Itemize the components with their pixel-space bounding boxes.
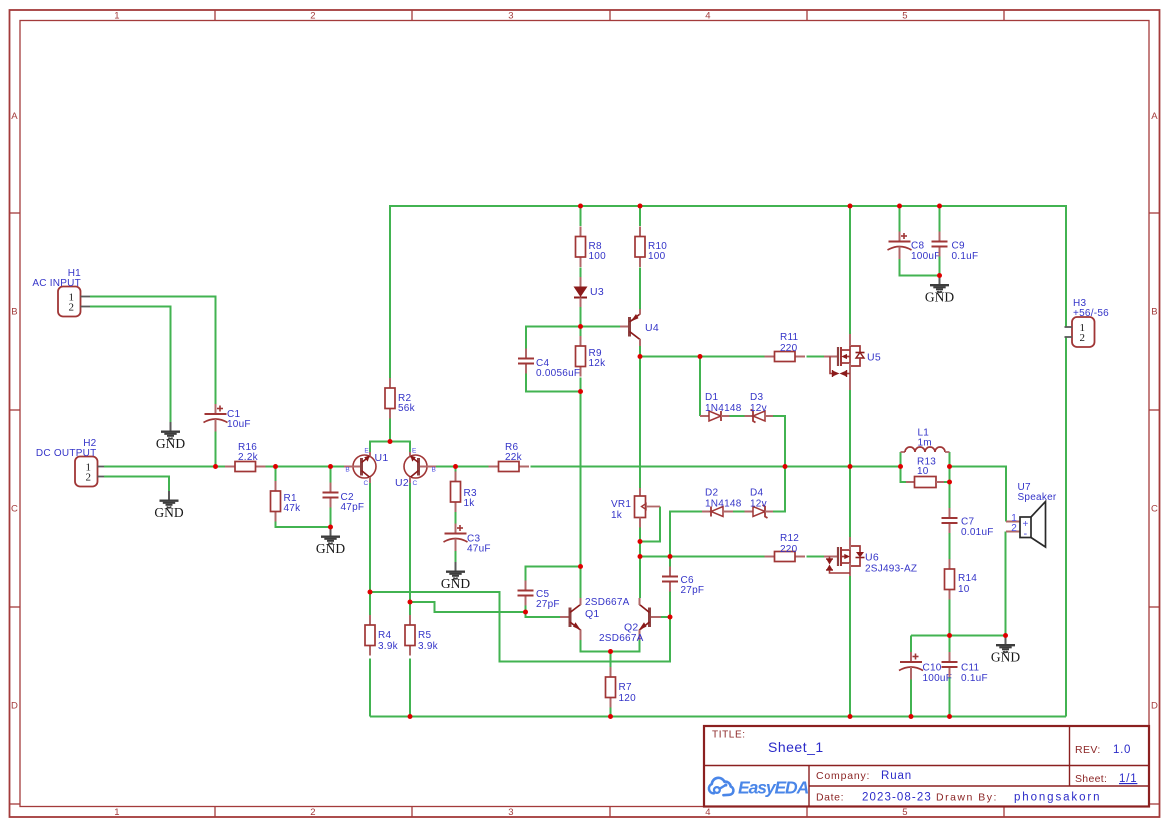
label 10 of R13 — [917, 466, 929, 477]
wire output rail to speaker pin1 — [950, 467, 1007, 522]
ground below C2 — [316, 527, 345, 556]
svg-text:D1: D1 — [705, 392, 718, 403]
svg-text:C: C — [1151, 504, 1158, 515]
wire C5 bottom to node — [525, 606, 527, 613]
wire R8 top to rail — [580, 206, 582, 226]
label R6 — [505, 442, 518, 453]
wire R7 bottom to rail — [610, 707, 612, 717]
wire C10 top node line — [911, 636, 1006, 653]
wire output rail to U6 drain — [849, 467, 851, 538]
label AC INPUT — [32, 278, 81, 289]
pin label C of U1 — [364, 480, 369, 487]
svg-text:C10: C10 — [923, 663, 942, 674]
capacitor C6 — [662, 567, 678, 592]
svg-text:2: 2 — [69, 301, 75, 313]
diode D2 — [702, 507, 733, 517]
svg-text:R5: R5 — [418, 630, 431, 641]
label 100uF of C10 — [923, 673, 953, 684]
transistor U1 — [344, 452, 376, 483]
label 0.0056uF — [536, 368, 580, 379]
label 1k — [464, 498, 476, 509]
label +56/-56 — [1073, 308, 1109, 319]
svg-text:D4: D4 — [750, 488, 763, 499]
svg-text:1k: 1k — [611, 510, 623, 521]
wire node to R7 top — [610, 652, 612, 668]
svg-text:12k: 12k — [589, 358, 607, 369]
wire C11 top to node — [949, 636, 951, 653]
wire R5 bottom to rail — [409, 659, 411, 717]
svg-text:2: 2 — [1011, 523, 1017, 534]
pin label B of U1 — [345, 467, 350, 474]
label C2 — [341, 492, 354, 503]
wire top rail to C8 top — [899, 206, 901, 232]
svg-text:1m: 1m — [918, 438, 932, 449]
wire D1 to D3 — [730, 415, 745, 417]
svg-text:B: B — [11, 307, 18, 318]
svg-text:C: C — [413, 480, 418, 487]
wire C1 bottom to node — [215, 432, 217, 467]
capacitor C5 — [518, 581, 534, 606]
title block — [704, 726, 1149, 807]
label U5 — [867, 352, 881, 364]
label Speaker — [1018, 492, 1057, 503]
wire R4 bottom to rail — [369, 659, 371, 717]
frame row letters right — [1151, 111, 1158, 712]
label D1 — [705, 392, 718, 403]
pin label 1 of U7 — [1011, 513, 1017, 524]
svg-text:EasyEDA: EasyEDA — [738, 778, 809, 798]
wire U4 node to R11 — [640, 356, 765, 358]
svg-text:phongsakorn: phongsakorn — [1014, 792, 1101, 804]
label C11 — [961, 663, 980, 674]
label 2.2k — [238, 452, 259, 463]
label 47k — [284, 503, 302, 514]
svg-text:Date:: Date: — [816, 792, 844, 804]
svg-text:+56/-56: +56/-56 — [1073, 308, 1109, 319]
wire D4 to output rail — [773, 467, 785, 512]
transistor U4 — [620, 309, 640, 346]
svg-text:Speaker: Speaker — [1018, 492, 1057, 503]
wire bottom rail — [370, 716, 1066, 718]
resistor R1 — [271, 481, 281, 522]
label U7 — [1018, 482, 1031, 493]
svg-text:220: 220 — [780, 343, 798, 354]
svg-text:D3: D3 — [750, 392, 763, 403]
label 100 of R10 — [648, 251, 666, 262]
label C8 — [911, 241, 924, 252]
wire C3 bottom to ground — [455, 551, 457, 562]
svg-text:27pF: 27pF — [536, 599, 560, 610]
svg-text:R11: R11 — [780, 332, 799, 343]
svg-text:2SD667A: 2SD667A — [599, 633, 644, 644]
wire Q1 collector to R9 — [580, 392, 582, 599]
label 1.0 — [1113, 744, 1131, 756]
svg-text:0.1uF: 0.1uF — [961, 673, 988, 684]
label C7 — [961, 517, 974, 528]
svg-text:1: 1 — [114, 11, 120, 22]
wire R14 bottom to node — [949, 600, 951, 636]
label H1 — [68, 268, 81, 279]
svg-text:AC INPUT: AC INPUT — [32, 278, 81, 289]
label 56k — [398, 403, 416, 414]
svg-text:R12: R12 — [780, 533, 799, 544]
svg-text:C: C — [11, 504, 18, 515]
svg-text:2SJ493-AZ: 2SJ493-AZ — [865, 564, 917, 575]
resistor R11 — [765, 352, 806, 362]
svg-text:D: D — [1151, 701, 1158, 712]
svg-text:4: 4 — [705, 11, 711, 22]
connector H1 — [58, 287, 90, 317]
svg-text:220: 220 — [780, 544, 798, 555]
label 0.1uF of C9 — [952, 251, 979, 262]
capacitor C7 — [942, 508, 958, 533]
label 0.01uF — [961, 527, 994, 538]
label Date — [816, 792, 844, 804]
svg-text:U4: U4 — [645, 322, 659, 334]
label 120 of R7 — [619, 693, 637, 704]
label R11 — [780, 332, 799, 343]
svg-text:2: 2 — [86, 471, 92, 483]
wire C4 bottom to R9 bottom node — [526, 374, 581, 392]
label D3 — [750, 392, 763, 403]
wire C8 bottom to C9 bottom ground node — [900, 257, 940, 276]
diode D3 zener — [745, 410, 774, 423]
label 2SD667A of Q2 — [599, 633, 644, 644]
svg-text:0.0056uF: 0.0056uF — [536, 368, 580, 379]
wire node to R9 top — [580, 327, 582, 337]
capacitor C4 — [518, 349, 534, 374]
speaker U7 — [1006, 502, 1046, 548]
svg-text:2.2k: 2.2k — [238, 452, 259, 463]
ground near C1 — [156, 422, 185, 451]
resistor R13 — [906, 477, 944, 488]
wire node to R3 top — [455, 467, 457, 472]
ground below C3 — [441, 562, 470, 591]
svg-text:1/1: 1/1 — [1119, 773, 1137, 785]
svg-text:Q2: Q2 — [624, 622, 639, 634]
wire R9 bottom to node — [580, 378, 582, 392]
wire U2 collector down to R5 — [409, 483, 411, 615]
connector H2 — [75, 457, 104, 487]
label 47uF — [467, 544, 491, 555]
potentiometer VR1 — [635, 488, 661, 528]
transistor U2 — [404, 452, 436, 483]
svg-text:B: B — [345, 467, 350, 474]
svg-text:A: A — [11, 111, 18, 122]
wire U2 base to node — [436, 466, 456, 468]
label R4 — [378, 630, 391, 641]
resistor R12 — [765, 552, 806, 562]
label TITLE — [712, 730, 746, 741]
svg-text:2SD667A: 2SD667A — [585, 597, 630, 608]
svg-text:2023-08-23: 2023-08-23 — [862, 792, 932, 804]
svg-text:1N4148: 1N4148 — [705, 403, 742, 414]
svg-text:1k: 1k — [464, 498, 476, 509]
label Ruan — [881, 770, 912, 782]
wire R10 bottom to U4 emitter — [639, 268, 641, 310]
wire C2 bottom to ground node — [330, 508, 332, 528]
label 2SD667A of Q1 — [585, 597, 630, 608]
label VR1 — [611, 499, 631, 510]
wire U4 node down to VR1 — [639, 357, 641, 489]
diode D4 zener — [745, 505, 774, 518]
wire R11 to U5 gate — [807, 356, 825, 358]
label R3 — [464, 488, 477, 499]
pin label C of U2 — [413, 480, 418, 487]
label 10uF — [227, 419, 251, 430]
svg-text:GND: GND — [316, 541, 345, 556]
wire node to C6 bottom branch — [370, 592, 670, 662]
wire node to R6 — [456, 466, 489, 468]
capacitor C10 — [899, 652, 923, 680]
label C3 — [467, 534, 480, 545]
svg-text:10uF: 10uF — [227, 419, 251, 430]
svg-text:E: E — [412, 448, 417, 455]
resistor R8 — [576, 227, 586, 268]
wire node to C7 top — [949, 482, 951, 508]
svg-text:C7: C7 — [961, 517, 974, 528]
wire C7 bottom to R14 top — [949, 533, 951, 559]
svg-text:100: 100 — [648, 251, 666, 262]
svg-text:REV:: REV: — [1075, 744, 1101, 756]
mosfet U5 — [824, 334, 865, 390]
svg-text:47k: 47k — [284, 503, 302, 514]
wire C10 bottom to rail — [910, 680, 912, 717]
wire node to R1 top — [275, 467, 277, 482]
resistor R9 — [576, 336, 586, 377]
svg-text:U6: U6 — [865, 552, 879, 564]
svg-text:U3: U3 — [590, 286, 604, 298]
wire Q2 base node — [661, 616, 670, 618]
resistor R3 — [451, 472, 461, 513]
wire top rail to C9 top — [939, 206, 941, 232]
svg-text:12v: 12v — [750, 499, 767, 510]
label U4 — [645, 322, 659, 334]
pin label E of U2 — [412, 448, 417, 455]
svg-text:Ruan: Ruan — [881, 770, 912, 782]
svg-text:4: 4 — [705, 807, 711, 818]
svg-text:22k: 22k — [505, 452, 523, 463]
label 100 of R8 — [589, 251, 607, 262]
svg-text:DC OUTPUT: DC OUTPUT — [36, 448, 97, 459]
svg-text:27pF: 27pF — [681, 585, 705, 596]
label 100uF of C8 — [911, 251, 941, 262]
label 1/1 — [1119, 773, 1137, 785]
label R14 — [958, 573, 977, 584]
label C9 — [952, 241, 965, 252]
label C10 — [923, 663, 942, 674]
svg-text:GND: GND — [991, 650, 1020, 665]
wire L1 left leg — [900, 452, 902, 467]
svg-text:B: B — [1151, 307, 1158, 318]
label C6 — [681, 575, 694, 586]
wire C2 top to node — [330, 467, 332, 483]
wire DC output pin1 to R16 — [104, 466, 225, 468]
wire U6 source to bottom rail — [849, 576, 851, 717]
label 10 of R14 — [958, 584, 970, 595]
label R12 — [780, 533, 799, 544]
wire H3 pin2 down right side — [1065, 337, 1067, 717]
resistor R16 — [225, 462, 266, 472]
ground near speaker — [991, 636, 1020, 665]
label REV — [1075, 744, 1101, 756]
label 1k of VR1 — [611, 510, 623, 521]
label phongsakorn — [1014, 792, 1101, 804]
svg-text:12v: 12v — [750, 403, 767, 414]
label R9 — [589, 348, 602, 359]
svg-text:47pF: 47pF — [341, 502, 365, 513]
svg-text:10: 10 — [917, 466, 929, 477]
wire L1 right leg — [949, 452, 951, 467]
label Q1 — [585, 608, 600, 620]
svg-text:U5: U5 — [867, 352, 881, 364]
label 12v of D3 — [750, 403, 767, 414]
svg-text:C9: C9 — [952, 241, 965, 252]
svg-text:-: - — [1024, 528, 1028, 540]
label 2SJ493-AZ — [865, 564, 917, 575]
wire R13 right leg — [944, 467, 950, 483]
label R1 — [284, 493, 297, 504]
label 1N4148 of D2 — [705, 499, 742, 510]
label R8 — [589, 241, 602, 252]
svg-text:5: 5 — [902, 807, 908, 818]
svg-text:D: D — [11, 701, 18, 712]
wire R13 left leg — [901, 467, 907, 483]
diode U3 — [574, 277, 588, 307]
svg-text:0.01uF: 0.01uF — [961, 527, 994, 538]
svg-text:Sheet_1: Sheet_1 — [768, 739, 824, 755]
wire U1 U2 emitters to R2 bottom — [370, 418, 410, 452]
label C4 — [536, 358, 549, 369]
transistor Q2 — [639, 598, 661, 640]
wire U2 collector node to Q1 base — [410, 602, 560, 617]
label R13 — [917, 457, 936, 468]
frame column numbers top — [114, 11, 908, 22]
label 27pF of C6 — [681, 585, 705, 596]
capacitor C3 — [444, 524, 468, 552]
wire node to C4 top — [526, 327, 581, 349]
svg-text:A: A — [1151, 111, 1158, 122]
connector H3 — [1065, 317, 1095, 347]
wire D2 to D4 — [733, 511, 745, 513]
resistor R6 — [489, 462, 530, 472]
label R16 — [238, 442, 257, 453]
svg-text:56k: 56k — [398, 403, 416, 414]
label R5 — [418, 630, 431, 641]
wire R8 bottom to U3 — [580, 268, 582, 279]
frame column numbers bottom — [114, 807, 908, 818]
capacitor C11 — [942, 652, 958, 677]
svg-text:C8: C8 — [911, 241, 924, 252]
svg-text:3.9k: 3.9k — [418, 641, 439, 652]
wire VR1 bottom to Q2 collector — [639, 528, 641, 599]
capacitor C8 — [888, 232, 912, 260]
label Sheet_1 — [768, 739, 824, 755]
label U3 — [590, 286, 604, 298]
plus label of U7 — [1022, 519, 1028, 530]
svg-text:GND: GND — [441, 576, 470, 591]
label 27pF of C5 — [536, 599, 560, 610]
svg-text:2: 2 — [1080, 332, 1086, 344]
capacitor C1 — [204, 404, 228, 432]
svg-text:B: B — [432, 467, 437, 474]
resistor R14 — [945, 559, 955, 600]
svg-text:1.0: 1.0 — [1113, 744, 1131, 756]
label 220 of R12 — [780, 544, 798, 555]
svg-text:10: 10 — [958, 584, 970, 595]
wire C11 bottom to rail — [949, 677, 951, 717]
label H2 — [83, 438, 96, 449]
wire R10 top to rail — [639, 206, 641, 226]
wire C6 bottom to Q2 base node — [669, 587, 671, 618]
wire Q2 emitter to node — [611, 640, 640, 652]
svg-text:100: 100 — [589, 251, 607, 262]
label U2 — [395, 477, 409, 489]
label C1 — [227, 409, 240, 420]
wire C6 top to node — [669, 557, 671, 567]
svg-text:GND: GND — [925, 290, 954, 305]
label 220 of R11 — [780, 343, 798, 354]
inductor L1 — [901, 447, 950, 452]
label 1N4148 of D1 — [705, 403, 742, 414]
svg-text:U2: U2 — [395, 477, 409, 489]
label DC OUTPUT — [36, 448, 97, 459]
svg-text:2: 2 — [310, 807, 316, 818]
wire R3 bottom to C3 top — [455, 512, 457, 524]
label 47pF — [341, 502, 365, 513]
pin label E of U1 — [364, 448, 369, 455]
wire U1 collector down to R4 — [369, 483, 371, 615]
label D2 — [705, 488, 718, 499]
label R10 — [648, 241, 667, 252]
minus label of U7 — [1024, 528, 1028, 540]
wire speaker pin2 to ground node — [1005, 532, 1007, 636]
resistor R4 — [365, 615, 375, 656]
label 3.9k of R4 — [378, 641, 399, 652]
wire R2 top rail to H3 pin1 — [390, 206, 1066, 378]
label 22k — [505, 452, 523, 463]
svg-text:Drawn By:: Drawn By: — [936, 792, 998, 804]
svg-text:U1: U1 — [375, 452, 389, 464]
ground below C8 C9 — [925, 276, 954, 305]
diode D1 — [700, 411, 730, 421]
resistor R10 — [635, 227, 645, 268]
EasyEDA logo — [709, 778, 809, 798]
svg-text:TITLE:: TITLE: — [712, 730, 746, 741]
svg-text:E: E — [364, 448, 369, 455]
svg-text:VR1: VR1 — [611, 499, 631, 510]
svg-text:3: 3 — [508, 11, 514, 22]
svg-text:5: 5 — [902, 11, 908, 22]
label 1m — [918, 438, 932, 449]
svg-text:3: 3 — [508, 807, 514, 818]
label 0.1uF of C11 — [961, 673, 988, 684]
svg-text:C: C — [364, 480, 369, 487]
wire AC input pin2 to ground — [90, 307, 171, 423]
mosfet U6 — [824, 537, 865, 576]
wire U4 collector to node — [639, 346, 641, 357]
capacitor C2 — [323, 483, 339, 508]
pin label B of U2 — [432, 467, 437, 474]
wire D3 to output rail — [773, 416, 785, 467]
label Sheet — [1075, 773, 1107, 785]
svg-text:3.9k: 3.9k — [378, 641, 399, 652]
svg-text:100uF: 100uF — [923, 673, 953, 684]
svg-text:Q1: Q1 — [585, 608, 600, 620]
frame row letters left — [11, 111, 18, 712]
label Company — [816, 770, 870, 782]
ground near H2 pin2 — [154, 491, 183, 520]
